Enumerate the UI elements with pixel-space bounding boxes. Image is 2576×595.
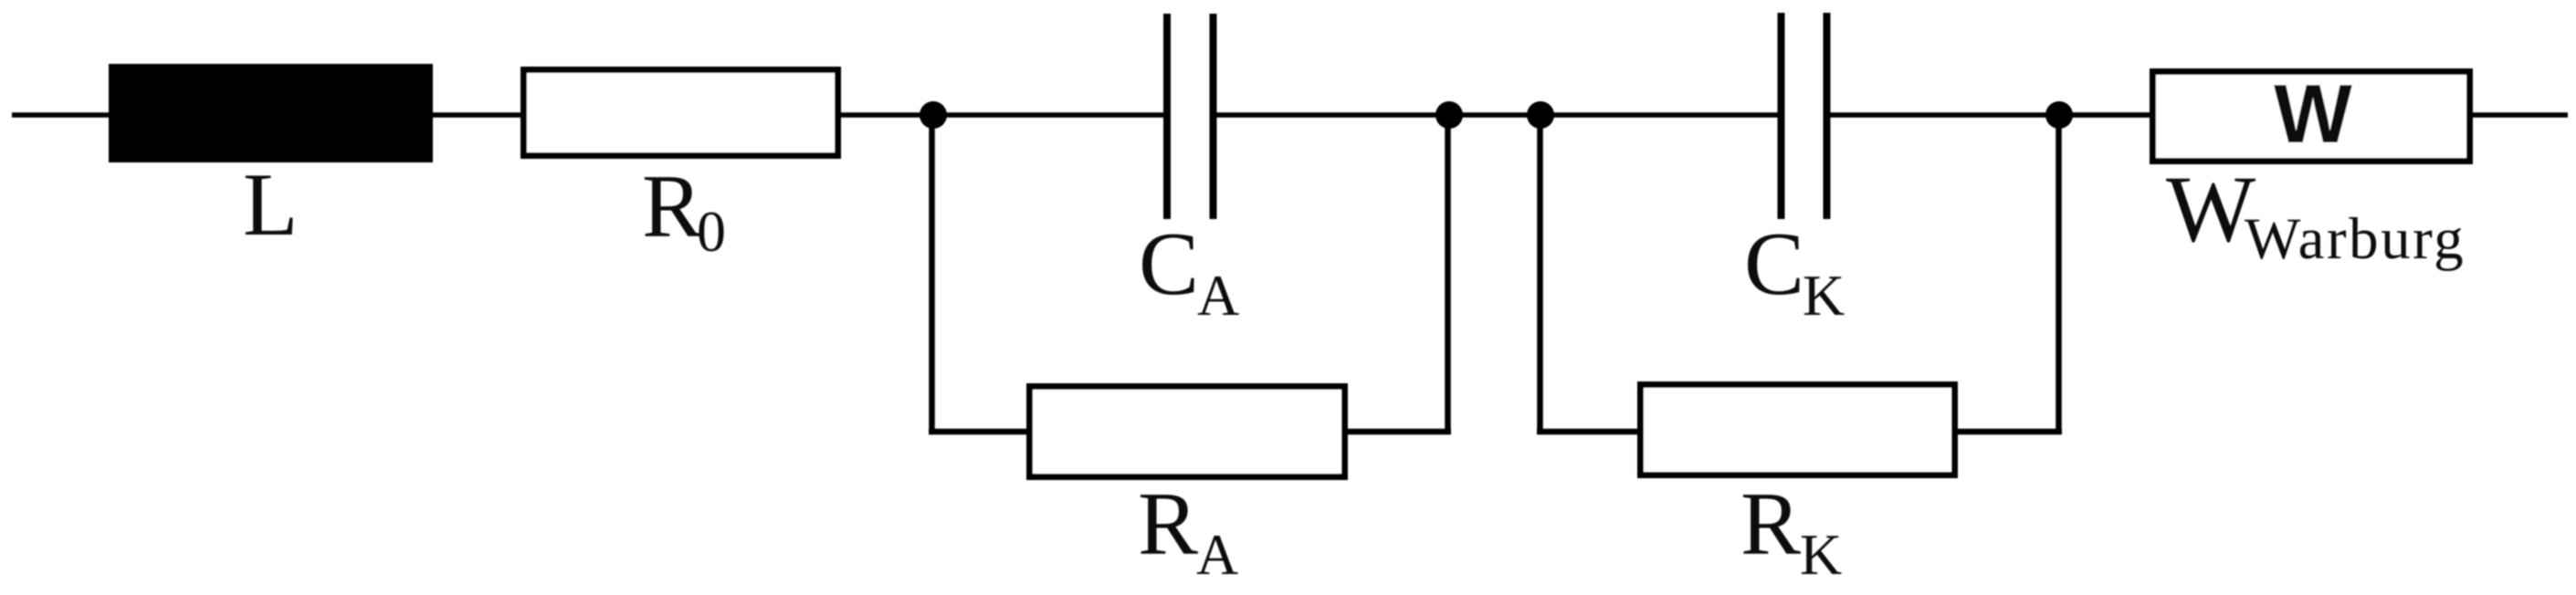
svg-text:K: K [1803, 263, 1845, 328]
svg-text:A: A [1197, 263, 1239, 328]
wire: RK branch left vertical [1537, 115, 1543, 432]
wire: RK branch right vertical [2056, 115, 2062, 434]
wire: RK branch bottom-right horizontal [1954, 429, 2062, 435]
node: junction left of CK branch [1527, 101, 1554, 129]
svg-text:A: A [1196, 522, 1238, 587]
resistor RA [1030, 387, 1345, 477]
wire: CA to CK (through nodes) [1215, 112, 1779, 118]
wire: RA branch right vertical [1445, 115, 1451, 434]
wire: RA branch bottom-right horizontal [1344, 429, 1451, 435]
capacitor CK [1782, 13, 1827, 219]
wire: RA branch left vertical [929, 115, 935, 432]
node: junction left of CA branch [920, 101, 947, 129]
node: junction right of CK branch [2045, 101, 2073, 129]
svg-text:W: W [2166, 157, 2255, 262]
wire: left lead into L [12, 112, 114, 118]
resistor R0 [524, 70, 838, 156]
svg-text:R: R [642, 157, 702, 256]
wire: RA branch bottom-left horizontal [929, 429, 1030, 435]
wire: RK branch bottom-left horizontal [1537, 429, 1641, 435]
svg-text:C: C [1139, 214, 1199, 314]
svg-text:0: 0 [697, 199, 726, 264]
wire: R0 to capacitor CA [837, 112, 1165, 118]
inductor L [111, 67, 431, 161]
svg-text:R: R [1740, 475, 1801, 574]
svg-text:R: R [1138, 475, 1198, 574]
wire: L to R0 [429, 112, 525, 118]
wire: node to Warburg box [2059, 112, 2153, 118]
svg-text:K: K [1800, 522, 1842, 587]
svg-text:C: C [1744, 214, 1804, 314]
wire: CK to node before W [1829, 112, 2153, 118]
svg-text:W: W [2274, 68, 2352, 161]
node: junction right of CA branch [1435, 101, 1463, 129]
svg-text:Warburg: Warburg [2245, 206, 2466, 272]
resistor RK [1641, 385, 1955, 475]
Warburg element W (box) [2153, 72, 2470, 162]
capacitor CA [1167, 14, 1214, 219]
svg-text:L: L [243, 155, 298, 255]
wire: right lead out of W [2469, 112, 2568, 118]
